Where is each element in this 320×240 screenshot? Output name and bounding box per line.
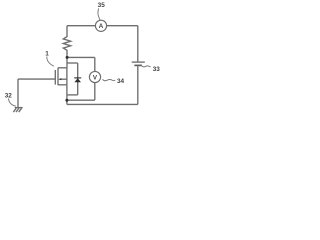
- transistor 1 body stub: [61, 78, 67, 80]
- wire top node to voltmeter: [67, 56, 95, 58]
- diode cathode bar: [74, 77, 81, 79]
- wire diode bottom connector: [67, 94, 78, 96]
- battery 33 short plate: [134, 64, 142, 66]
- wire diode top tee: [67, 62, 78, 64]
- svg-text:34: 34: [117, 78, 125, 85]
- transistor 1 drain stub: [58, 67, 67, 69]
- wire battery top branch: [137, 26, 139, 62]
- wire bottom rail: [67, 103, 138, 105]
- transistor 1 gate wire: [18, 78, 55, 80]
- transistor 1 gate line: [54, 70, 56, 85]
- diode triangle: [74, 78, 81, 82]
- svg-text:32: 32: [5, 93, 13, 100]
- leader tilde for label 33: [141, 66, 150, 67]
- ground 32 bar: [15, 107, 23, 109]
- svg-text:A: A: [99, 23, 104, 30]
- leader for label 35: [98, 8, 100, 20]
- transistor 1 body arrow: [58, 78, 61, 80]
- ground 32 hatch 2: [16, 108, 19, 112]
- voltmeter 34 circle: [89, 71, 100, 82]
- wire drain bus: [66, 57, 68, 67]
- transistor 1 channel line: [57, 68, 59, 85]
- node dot top: [66, 56, 69, 59]
- wire voltmeter bottom lead: [94, 83, 96, 101]
- ammeter 35 circle: [95, 20, 106, 31]
- wire battery bottom branch: [137, 66, 139, 104]
- transistor 1 right bus: [66, 68, 68, 85]
- wire voltmeter top lead: [94, 57, 96, 71]
- svg-text:V: V: [93, 74, 98, 81]
- diode body line: [77, 63, 79, 95]
- leader for label 1: [47, 57, 54, 67]
- svg-text:1: 1: [45, 51, 49, 58]
- node dot bottom: [65, 99, 68, 102]
- wire top rail left: [67, 25, 95, 27]
- ground 32 hatch 3: [19, 108, 22, 112]
- wire source rail to voltmeter: [67, 99, 95, 101]
- svg-text:35: 35: [98, 2, 106, 9]
- transistor 1 source stub: [58, 84, 67, 86]
- svg-text:33: 33: [153, 66, 161, 73]
- resistor: [63, 26, 70, 58]
- leader tilde for label 34: [103, 79, 116, 81]
- battery 33 long plate: [132, 61, 145, 63]
- ground 32 hatch 1: [13, 108, 16, 112]
- leader for label 32: [8, 98, 15, 106]
- wire top rail right: [107, 25, 138, 27]
- ground 32 lead: [17, 79, 19, 107]
- wire source bus down: [66, 85, 68, 105]
